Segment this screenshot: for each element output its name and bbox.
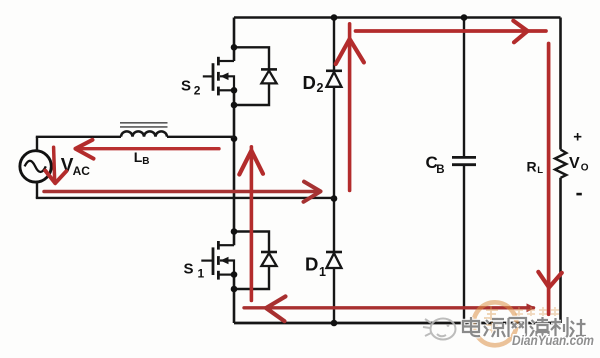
svg-text:AC: AC [73,164,91,178]
watermark: gray CJK text 电源网福利社 (vector strokes) [463,317,586,337]
wire: left column mid (S2 source to S1 drain) [233,90,236,245]
wire: VAC top stub [36,137,38,151]
diode D1 [326,252,342,268]
wire: top rail [234,16,561,19]
wire: capacitor branch upper [463,18,465,157]
red arrowhead pointing left on bottom rail [266,296,286,321]
red arrowhead pointing down at VAC [45,171,66,184]
node: capacitor bottom rail junction [461,320,468,327]
svg-text:S: S [184,260,194,277]
watermark: orange stamp ring [474,302,517,345]
wire: VAC bottom stub [36,182,38,198]
wire: right rail upper (to RL top) [559,18,562,150]
body diode of S2 [234,47,277,105]
svg-text:D: D [303,72,316,93]
svg-text:S: S [181,77,191,94]
label minus sign [576,193,581,196]
svg-text:DianYuan.com: DianYuan.com [512,332,594,348]
node: S1 diode bottom junction [231,286,238,293]
svg-text:2: 2 [194,84,201,98]
wire: left column bottom (S1 source to bottom rail) [233,275,236,323]
wire: bottom rail [234,322,561,325]
red current annotations [44,21,562,322]
svg-text:1: 1 [198,267,205,281]
node: S2 diode bottom junction [231,102,238,109]
red arrowhead pointing up at S1 branch [239,151,263,175]
wire: right rail lower (RL bottom to bottom rail) [559,178,562,323]
watermark: gray mascot icon [423,319,456,340]
wire: diode leg lower (D1 to bottom rail) [333,268,335,323]
red wire: top rail rightward path [356,29,547,33]
red wire: top-left return path along VAC top wire [78,147,219,150]
resistor RL zigzag [555,150,566,178]
watermark: orange small text row right of stamp [515,307,559,316]
red wire: down through VAC source [54,147,55,179]
red wire: up through S1 branch [250,147,254,301]
wire: VAC bottom wire to neutral junction [36,197,334,199]
node: S1 diode top junction [231,228,238,235]
red wire: up through D2 branch [348,24,352,191]
svg-text:V: V [569,155,580,172]
AC source sine wave [25,161,46,172]
svg-text:B: B [142,156,149,167]
wire: left column top (top rail to S2 drain) [233,18,236,62]
red arrowhead pointing left near VAC [76,140,94,159]
red wire: down through RL [547,44,551,315]
node: diode leg top rail junction [331,14,338,21]
wire: diode leg mid (D2 to D1) [333,87,335,252]
node: phase junction (VAC top wire to MOSFET leg) [231,135,238,142]
wire: inductor to phase junction [167,136,234,138]
wire: capacitor branch lower [463,166,465,323]
svg-text:B: B [436,164,444,176]
transistor S2 (MOSFET) [203,57,234,96]
watermark: orange marks inside stamp [484,306,498,333]
svg-text:O: O [581,163,589,174]
red arrowhead pointing right on top rail [513,21,527,43]
red arrowhead small tip at bottom right end [527,303,536,312]
wire: VAC top wire to inductor [36,136,121,138]
svg-text:2: 2 [317,81,324,95]
inductor core line 2 [120,126,168,128]
svg-text:R: R [527,159,537,175]
red arrowhead pointing right near neutral junction [304,182,321,202]
body diode of S1 [234,232,277,290]
svg-text:L: L [537,165,543,176]
wire: diode leg upper (top rail to D2) [333,18,335,71]
node: diode leg bottom rail junction [331,320,338,327]
AC source VAC circle [20,151,51,182]
node: capacitor top rail junction [461,14,468,21]
red wire: bottom-left forward path along VAC bottom wire [44,190,318,194]
svg-text:D: D [305,253,318,274]
node: S2 source junction [231,87,238,94]
inductor core line 1 [120,122,168,124]
svg-text:1: 1 [319,265,326,279]
transistor S1 (MOSFET) [201,241,234,280]
capacitor CB [452,157,476,164]
red arrowhead pointing down at RL [538,272,562,288]
node: neutral junction (VAC bottom wire to diode leg) [331,195,338,202]
svg-text:+: + [573,129,582,146]
red wire: bottom rail leftward path [244,306,534,309]
red arrowhead pointing up at D2 [336,39,364,64]
inductor LB [121,131,167,136]
node: S2 diode top junction [231,44,238,51]
node: S1 source junction [231,271,238,278]
diode D2 [326,71,342,87]
